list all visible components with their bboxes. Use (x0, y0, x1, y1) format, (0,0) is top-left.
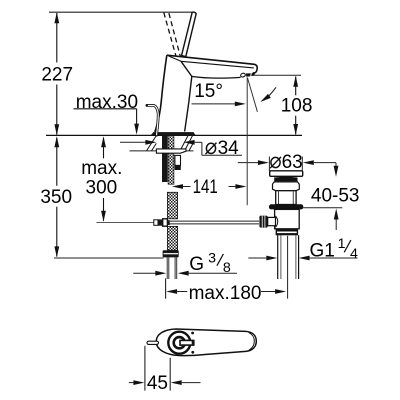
wire: deck underside line (130, 150, 194, 152)
pop-up rod to waste (double line) (170, 220, 259, 222)
pop-up pull rod (behind body) (147, 105, 158, 135)
svg-text:141: 141 (193, 177, 218, 198)
svg-text:G1: G1 (310, 241, 335, 262)
dimension 141 (172, 184, 183, 189)
svg-text:max.: max. (81, 158, 122, 179)
wire: hose-end reference line (350 bottom) (54, 257, 164, 259)
svg-text:40-53: 40-53 (311, 185, 360, 206)
pop-up lower body (275, 209, 300, 228)
handle screw dots (191, 332, 194, 335)
svg-text:max.180: max.180 (189, 283, 262, 304)
pop-up seal ring (dark) (269, 204, 303, 209)
water stream 15 deg line (247, 78, 257, 112)
15 deg arc arrow (264, 87, 277, 100)
faucet body outline (167, 55, 257, 73)
pop-up waste lid (270, 171, 303, 177)
svg-text:4: 4 (350, 246, 358, 262)
svg-text:3: 3 (208, 250, 216, 266)
svg-text:63: 63 (282, 152, 303, 173)
water stream vertical reference (246, 78, 248, 206)
dimension G3/8 (133, 272, 155, 274)
fixing stud nut (dark) (175, 165, 181, 170)
dimension 227 (56, 13, 58, 135)
handle cartridge outer ring (168, 332, 190, 354)
faucet lever open position (dashed) (164, 13, 180, 56)
pop-up lever stem (268, 217, 276, 225)
faucet body left edge (155, 55, 167, 132)
shank threaded column (168, 136, 174, 185)
handle cartridge inner ring (174, 337, 185, 348)
svg-text:350: 350 (40, 187, 72, 208)
pop-up nut (276, 229, 299, 236)
handle tip inner contour (249, 333, 255, 351)
svg-text:max.30: max.30 (76, 92, 138, 113)
aerator (dark) (246, 73, 251, 77)
hose nut (dark) (163, 250, 179, 257)
wire: top reference line (lever top) (49, 11, 193, 13)
deck hatch right (180, 136, 193, 151)
svg-text:1: 1 (338, 236, 346, 252)
faucet base plate (153, 132, 194, 135)
dimension max.300 (103, 138, 105, 221)
aerator end outline (240, 73, 246, 78)
spout underside (192, 76, 241, 78)
dimension 45 (144, 346, 146, 391)
svg-text:34: 34 (218, 138, 240, 159)
faucet body front-right seam (181, 61, 192, 131)
dimension G1 1/4 (248, 257, 266, 259)
faucet top-face seam (181, 61, 254, 68)
shank dark column (162, 136, 168, 182)
wire: pop-up rod left part (97, 222, 154, 224)
svg-text:300: 300 (86, 178, 118, 199)
faucet lever closed position (solid blade) (182, 12, 197, 57)
dimension diameter 34 (120, 141, 146, 143)
supply hose upper (braided) (167, 192, 177, 219)
svg-text:45: 45 (147, 373, 168, 394)
supply pipe G3/8 walls (167, 257, 177, 279)
fixing stud (175, 155, 181, 165)
dimension max.180 (165, 278, 167, 298)
pop-up lever knob (knurled, dark) (259, 216, 267, 228)
handle plan view outline (156, 329, 256, 356)
wire: deck/counter line (46, 134, 302, 136)
dimension diameter 63 (238, 162, 258, 164)
dimension 350 (56, 138, 58, 257)
deck hatch left (147, 136, 157, 151)
handle pin (147, 341, 159, 344)
svg-text:227: 227 (41, 64, 73, 85)
svg-text:15°: 15° (194, 81, 223, 102)
svg-text:8: 8 (223, 260, 231, 276)
pop-up flange (273, 182, 300, 191)
faucet body chamfer seam (169, 56, 181, 61)
mounting washer (156, 149, 186, 153)
dimension 108 (253, 74, 302, 76)
svg-text:G: G (189, 254, 204, 275)
handle stem bar (180, 340, 194, 345)
supply hose lower (braided) (167, 226, 177, 250)
rod coupling at hose (154, 220, 158, 226)
pop-up upper body (276, 191, 296, 205)
pop-up tailpipe (278, 235, 299, 279)
dimension 40-53 (335, 163, 337, 167)
svg-text:108: 108 (281, 96, 313, 117)
pop-up plug (dark) (274, 177, 297, 182)
